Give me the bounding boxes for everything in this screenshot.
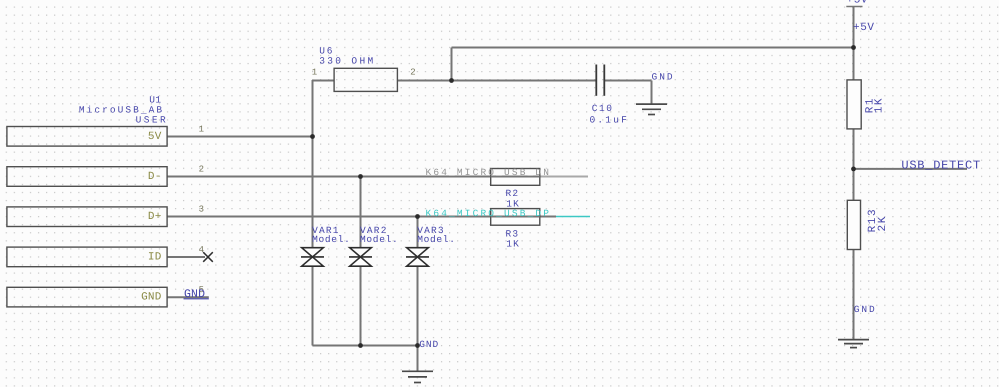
svg-text:GND: GND	[419, 339, 439, 350]
svg-text:2K: 2K	[877, 215, 889, 231]
svg-text:3: 3	[199, 205, 204, 215]
svg-text:4: 4	[199, 245, 204, 255]
svg-text:1: 1	[312, 68, 317, 78]
svg-text:R3: R3	[506, 228, 520, 239]
svg-text:+5V: +5V	[853, 22, 875, 34]
svg-text:Model.: Model.	[312, 234, 350, 245]
svg-text:ID: ID	[148, 252, 162, 264]
svg-text:K64_MICRO_USB_DN: K64_MICRO_USB_DN	[426, 167, 552, 178]
svg-text:5V: 5V	[148, 131, 162, 143]
svg-text:C10: C10	[592, 103, 614, 114]
svg-text:0.1uF: 0.1uF	[590, 115, 630, 126]
svg-text:USB_DETECT: USB_DETECT	[901, 159, 981, 173]
svg-text:+5V: +5V	[847, 0, 869, 7]
svg-text:U1: U1	[149, 94, 161, 105]
svg-text:GND: GND	[652, 71, 675, 82]
svg-text:GND: GND	[141, 292, 162, 304]
svg-text:Model.: Model.	[417, 234, 455, 245]
svg-text:USER: USER	[136, 114, 169, 125]
svg-text:1K: 1K	[506, 239, 520, 250]
svg-text:K64_MICRO_USB_DP: K64_MICRO_USB_DP	[426, 208, 552, 219]
svg-text:1K: 1K	[506, 199, 520, 210]
svg-text:330 OHM: 330 OHM	[319, 56, 375, 67]
svg-text:2: 2	[199, 165, 204, 175]
svg-text:2: 2	[410, 68, 415, 78]
svg-text:GND: GND	[854, 304, 877, 315]
svg-text:1: 1	[199, 124, 204, 134]
svg-text:GND: GND	[184, 288, 205, 301]
svg-text:1K: 1K	[873, 97, 885, 113]
svg-text:D-: D-	[148, 171, 162, 183]
svg-text:D+: D+	[148, 211, 162, 223]
svg-text:Model.: Model.	[360, 234, 398, 245]
svg-text:R2: R2	[506, 188, 520, 199]
